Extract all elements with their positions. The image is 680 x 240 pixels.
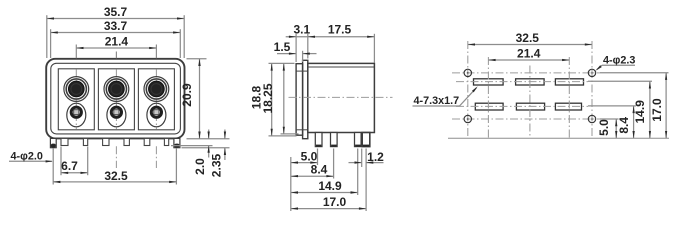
side view: pins <box>315 133 322 147</box>
side view: flange step line bottom <box>296 129 308 131</box>
svg-text:32.5: 32.5 <box>516 31 540 45</box>
side view: pin extension lines below <box>290 157 292 211</box>
footprint: horizontal centerline hole row top <box>452 72 600 74</box>
front view: centerline jack column 1 <box>75 45 77 59</box>
svg-text:33.7: 33.7 <box>104 19 128 33</box>
side view: flange front plate <box>296 64 303 136</box>
front view: dimension 2.0 (outside arrows) <box>208 130 210 139</box>
front view: extension line right feet bottom <box>171 145 213 147</box>
footprint: slot row2 #1 <box>475 103 503 110</box>
footprint: mounting hole 3 <box>464 115 471 122</box>
svg-text:14.9: 14.9 <box>633 100 647 124</box>
front view: extension lines for width dims <box>46 15 48 58</box>
side view: extension lines left for 18.8/18.25 <box>269 62 295 64</box>
front view: left metal pin <box>50 138 56 147</box>
footprint: mounting hole 1 <box>464 69 471 76</box>
front view: RCA jack 3 middle ring <box>146 79 166 99</box>
front view: RCA jack 2 middle ring <box>106 79 126 99</box>
front view: port panel 3 <box>138 69 174 130</box>
svg-text:2.0: 2.0 <box>193 158 207 175</box>
footprint: dimension 14.9 <box>649 81 651 138</box>
side view: dimension 17.0 <box>291 208 366 210</box>
front view: dimension 33.7 <box>51 32 181 34</box>
svg-text:17.0: 17.0 <box>650 98 664 122</box>
front view: small mini-jack 1 dark ring <box>70 106 83 119</box>
footprint: dimension 5.0 <box>615 119 617 138</box>
front view: connector body inner outline <box>51 63 181 134</box>
svg-text:4-7.3x1.7: 4-7.3x1.7 <box>414 95 460 107</box>
footprint: board reference baseline <box>448 137 669 139</box>
footprint: dimension 17.0 <box>665 73 667 139</box>
svg-text:8.4: 8.4 <box>617 117 631 134</box>
front view: RCA jack 1 dark barrel <box>68 81 84 97</box>
front view: extension line right pin bottom <box>182 147 230 149</box>
front view: port panel 1 <box>58 69 94 130</box>
side view: dimension 1.5 (outside arrows) <box>277 53 296 55</box>
footprint: slot row2 #3 <box>555 103 581 110</box>
front view: centerline inside panel 3 <box>155 70 157 130</box>
side view: dimension 18.8 <box>271 63 273 135</box>
front view: extension line right top for 20.9 <box>187 58 207 60</box>
side view: flange step line top <box>296 70 308 72</box>
front view: dimension 35.7 <box>47 18 184 20</box>
svg-text:14.9: 14.9 <box>318 179 342 193</box>
side view: dimension 3.1 and 17.5 line <box>286 36 375 38</box>
side view: dimension 5.0 <box>291 162 318 164</box>
front view: mounting feet under body <box>61 138 68 145</box>
front view: small mini-jack 2 teardrop outline <box>107 103 126 127</box>
front view: centerline jack column 3 below body <box>155 146 157 168</box>
footprint: vertical centerline slot column 3 <box>568 57 570 138</box>
front view: centerline inside panel 2 <box>115 70 117 130</box>
front view: small mini-jack 1 square pin hole <box>74 110 79 115</box>
footprint: dimension 32.5 <box>468 44 592 46</box>
side view: body top inner line <box>308 66 375 68</box>
front view: dimension 2.35 (outside arrows) <box>224 130 226 139</box>
front view: dimension 32.5 <box>53 181 176 183</box>
svg-text:35.7: 35.7 <box>104 5 128 19</box>
svg-text:5.0: 5.0 <box>301 149 318 163</box>
side view: dimension 1.2 (outside arrows) <box>349 162 362 164</box>
svg-text:20.9: 20.9 <box>180 83 194 107</box>
front view: RCA jack 2 outer ring <box>104 77 129 102</box>
footprint: vertical centerline slot column 1 <box>487 57 489 138</box>
svg-text:1.5: 1.5 <box>274 40 291 54</box>
front view: RCA jack 2 dark barrel <box>109 81 125 97</box>
svg-text:21.4: 21.4 <box>517 46 541 60</box>
footprint: vertical centerline hole column right <box>591 41 593 138</box>
svg-text:32.5: 32.5 <box>104 169 128 183</box>
front view: RCA jack 1 outer ring <box>64 77 89 102</box>
svg-text:17.0: 17.0 <box>323 195 347 209</box>
svg-text:5.0: 5.0 <box>597 119 611 136</box>
front view: port panel 2 <box>98 69 134 130</box>
side view: dimension 14.9 <box>291 192 358 194</box>
svg-text:1.2: 1.2 <box>367 150 384 164</box>
front view: extension line right bottom body <box>187 138 230 140</box>
footprint: slot row1 #1 <box>474 79 504 85</box>
front view: small mini-jack 3 square pin hole <box>154 110 159 115</box>
front view: right metal pin <box>174 138 180 147</box>
front view: dimension 21.4 <box>76 47 156 49</box>
svg-text:21.4: 21.4 <box>105 35 129 49</box>
footprint: mounting hole 4 <box>588 115 595 122</box>
footprint: slot row2 #2 <box>516 103 544 110</box>
svg-text:6.7: 6.7 <box>61 159 78 173</box>
side view: dimension 8.4 <box>291 175 334 177</box>
footprint: vertical centerline slot column 2 <box>529 66 531 139</box>
side view: main body <box>308 63 375 132</box>
front view: connector body outer outline <box>46 59 184 139</box>
front view: small mini-jack 1 teardrop outline <box>67 103 86 127</box>
side view: flange back plate <box>303 60 308 138</box>
front view: small mini-jack 2 square pin hole <box>114 110 119 115</box>
footprint: mounting hole 2 <box>588 69 595 76</box>
footprint: horizontal centerline slot row 2 <box>456 105 588 107</box>
front view: dimension 6.7 <box>61 172 88 174</box>
svg-text:18.25: 18.25 <box>261 83 275 113</box>
footprint: slot row1 #2 <box>516 79 545 85</box>
side view: horizontal centerline <box>289 96 393 98</box>
footprint: vertical centerline hole column left <box>467 41 469 138</box>
svg-text:8.4: 8.4 <box>311 163 328 177</box>
footprint: horizontal centerline hole row bottom <box>452 118 600 120</box>
front view: RCA jack 3 dark barrel <box>149 81 165 97</box>
front view: dimension 20.9 <box>199 59 201 139</box>
svg-text:2.35: 2.35 <box>209 153 223 177</box>
side view: extension lines above flange <box>295 34 297 62</box>
footprint: horizontal centerline slot row 1 <box>456 81 588 83</box>
front view: feet extension lines for 6.7 <box>60 147 62 176</box>
footprint: slot row1 #3 <box>555 79 583 85</box>
front view: centerline jack column 2 <box>115 52 117 59</box>
front view: small mini-jack 3 teardrop outline <box>147 103 166 127</box>
footprint: dimension 8.4 <box>633 106 635 138</box>
footprint: extension lines right side <box>600 72 669 74</box>
footprint: dimension 21.4 <box>488 59 569 61</box>
side view: dimension 18.25 <box>283 63 285 133</box>
front view: small mini-jack 2 dark ring <box>110 106 123 119</box>
front view: centerline inside panel 1 <box>75 70 77 130</box>
front view: centerline jack column 3 <box>155 45 157 59</box>
svg-text:17.5: 17.5 <box>328 23 352 37</box>
front view: RCA jack 1 middle ring <box>66 79 86 99</box>
front view: pin center extension lines <box>52 149 54 185</box>
front view: RCA jack 3 outer ring <box>144 77 169 102</box>
front view: small mini-jack 3 dark ring <box>150 106 163 119</box>
front view: centerline jack column 2 below body <box>115 146 117 168</box>
svg-text:3.1: 3.1 <box>293 23 310 37</box>
